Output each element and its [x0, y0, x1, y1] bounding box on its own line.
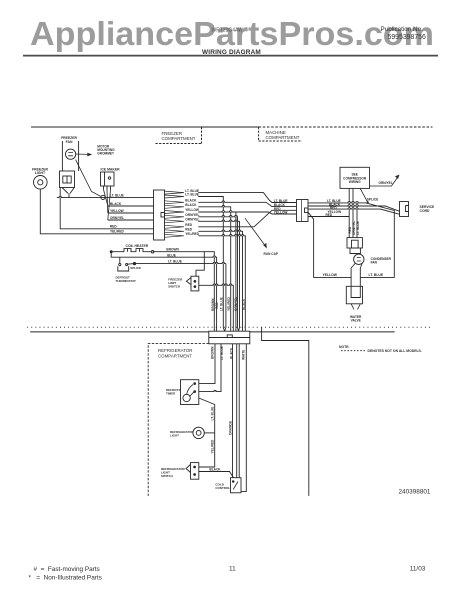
- wire black C3 to cold control: [232, 344, 234, 478]
- bottom solid border: [30, 331, 394, 333]
- svg-text:FAN: FAN: [371, 260, 378, 264]
- svg-text:LT. BLUE: LT. BLUE: [220, 297, 224, 311]
- svg-text:ORN/YEL: ORN/YEL: [185, 218, 199, 222]
- refrigerator right border: [262, 327, 309, 496]
- svg-text:ORN/YEL: ORN/YEL: [185, 213, 199, 217]
- connector C3: [209, 331, 250, 344]
- note dashed sample: [341, 350, 366, 352]
- freezer fan connector box: [60, 171, 75, 188]
- svg-text:BLACK: BLACK: [110, 202, 122, 206]
- run capacitor callout arrow: [245, 218, 267, 248]
- machine bottom wire right: [360, 277, 394, 279]
- refrigerator light switch: [186, 463, 199, 480]
- svg-text:ORN/YEL: ORN/YEL: [234, 297, 238, 311]
- wire red J1 down: [198, 231, 242, 331]
- svg-text:RED: RED: [110, 225, 117, 229]
- ring terminal: [101, 195, 105, 199]
- svg-text:BLACK: BLACK: [242, 298, 246, 310]
- wire yellow J1 to J2 pin4: [198, 212, 296, 214]
- wire lt-blue splice down right side: [366, 203, 394, 278]
- rotated wire labels above C3: [211, 296, 246, 311]
- svg-text:COMPARTMENT: COMPARTMENT: [266, 135, 300, 140]
- svg-text:AppliancePartsPros.com: AppliancePartsPros.com: [30, 16, 434, 53]
- wire orn-yel J1 down a: [198, 217, 238, 331]
- svg-text:5995398756: 5995398756: [388, 34, 426, 41]
- wire red J1 to J2 pin3: [198, 210, 296, 227]
- condenser fan motor: [354, 254, 364, 264]
- wire hop bumps: [59, 196, 358, 391]
- freezer light label: [32, 167, 48, 175]
- defrost timer label: [166, 388, 181, 396]
- defrost timer: [181, 380, 199, 405]
- ground arrow: [369, 175, 399, 186]
- svg-text:LT. BLUE: LT. BLUE: [110, 193, 124, 197]
- wire yel-red freezer light to J1: [40, 189, 153, 234]
- wire lt-blue J1 down: [198, 197, 224, 332]
- wire red J2 to service cord: [308, 209, 400, 214]
- wire red J2 to condenser fan: [308, 216, 349, 218]
- svg-text:BLACK: BLACK: [209, 467, 221, 471]
- cold control: [231, 478, 242, 493]
- service cord label: [420, 205, 436, 213]
- svg-text:COMPARTMENT: COMPARTMENT: [158, 353, 192, 358]
- freezer light lamp: [34, 176, 48, 190]
- svg-text:TIMER: TIMER: [166, 391, 176, 395]
- svg-text:BLUE: BLUE: [167, 253, 176, 257]
- motor mounting grommet callout arrow: [76, 153, 93, 157]
- wire black J2 to service cord: [308, 206, 400, 211]
- svg-text:DENOTES NOT ON ALL MODELS.: DENOTES NOT ON ALL MODELS.: [368, 349, 422, 353]
- defrost thermostat: [118, 262, 136, 271]
- wire yel-red down to switch: [199, 433, 215, 467]
- svg-text:SWITCH: SWITCH: [168, 284, 180, 288]
- svg-text:YEL/RED: YEL/RED: [110, 230, 125, 234]
- refrigerator compartment dashed border: [148, 344, 209, 496]
- svg-text:WIRING: WIRING: [349, 180, 361, 184]
- svg-text:Publication No.: Publication No.: [381, 26, 424, 33]
- J1 fan-out crimps: [165, 191, 185, 237]
- freezer compartment label dashed corner: [156, 127, 202, 144]
- freezer compartment top border: [31, 126, 259, 128]
- svg-text:LT. BLUE: LT. BLUE: [369, 273, 384, 277]
- condenser fan label: [371, 257, 392, 265]
- refrigerator light switch label: [161, 467, 186, 478]
- motor mounting grommet label: [97, 145, 115, 156]
- svg-text:COMPARTMENT: COMPARTMENT: [162, 136, 196, 141]
- wire black switch to cold control: [199, 472, 234, 478]
- freezer limit switch: [186, 276, 198, 291]
- svg-text:ORN/YEL: ORN/YEL: [379, 181, 393, 185]
- wire labels left of J1: [110, 193, 125, 233]
- wire red compressor to fan connector: [348, 188, 350, 237]
- wire lt-blue thermostat line: [120, 257, 226, 264]
- svg-text:ICE MAKER: ICE MAKER: [101, 167, 121, 171]
- wire lt-blue C3 to defrost timer: [199, 344, 221, 392]
- wire limit switch down: [199, 285, 234, 331]
- freezer fan label: [61, 136, 77, 144]
- machine compartment label: [266, 130, 300, 140]
- svg-text:SPLICE: SPLICE: [367, 198, 379, 202]
- svg-text:LT. BLUE: LT. BLUE: [168, 259, 182, 263]
- machine compartment label dashed corner: [259, 127, 302, 141]
- svg-text:YELLOW: YELLOW: [274, 211, 288, 215]
- svg-text:SWITCH: SWITCH: [161, 474, 173, 478]
- heater wire labels: [166, 247, 181, 263]
- wire yellow J2 down left side of machine box: [308, 212, 314, 277]
- svg-text:240398801: 240398801: [399, 489, 431, 496]
- wire labels J2 left: [274, 199, 288, 215]
- see compressor wiring box: [340, 167, 370, 188]
- svg-text:GROMMET: GROMMET: [97, 152, 114, 156]
- wire light to vertical: [204, 432, 214, 434]
- svg-text:THERMOSTAT: THERMOSTAT: [116, 279, 137, 283]
- svg-text:RUN CAP: RUN CAP: [264, 252, 279, 256]
- wire orn-yel ice maker to J1: [108, 219, 154, 221]
- wire lt-blue J2 to splice: [308, 202, 366, 204]
- J1 fan-out labels: [185, 189, 200, 236]
- wire black J1 down: [198, 207, 230, 331]
- svg-text:NOTE:: NOTE:: [339, 345, 350, 349]
- svg-text:RED: RED: [215, 302, 219, 309]
- wire lt-blue down to C3: [225, 264, 226, 332]
- wire orn-yel J1 down b: [198, 221, 239, 331]
- wire yellow ice maker to J1: [108, 212, 154, 214]
- svg-text:COIL HEATER: COIL HEATER: [126, 244, 149, 248]
- ice maker: [101, 172, 115, 186]
- svg-text:LT. BLUE: LT. BLUE: [356, 221, 360, 235]
- svg-text:BROWN: BROWN: [166, 247, 179, 251]
- condenser fan legs: [351, 263, 362, 268]
- svg-text:YELLOW: YELLOW: [185, 208, 199, 212]
- machine compartment dotted bottom border: [27, 326, 433, 328]
- wire lt-blue fan to connector J1: [57, 197, 154, 199]
- wire yellow branch down: [235, 212, 237, 331]
- svg-text:FAN: FAN: [66, 140, 73, 144]
- svg-text:ORANGE: ORANGE: [228, 421, 232, 435]
- wire blue heater return: [111, 252, 216, 332]
- freezer limit switch label: [168, 277, 183, 288]
- wire red C3 to cold control: [238, 344, 240, 478]
- svg-text:SPLICE: SPLICE: [130, 266, 141, 270]
- wire lt-blue timer down: [199, 398, 215, 433]
- water valve: [346, 286, 362, 304]
- wire lt-blue J1 to J2 pin1: [198, 193, 296, 203]
- svg-text:ORN/YEL: ORN/YEL: [110, 216, 124, 220]
- connector J2: [297, 200, 309, 222]
- svg-text:CONTROL: CONTROL: [215, 486, 230, 490]
- wire labels J2 right: [326, 199, 342, 217]
- svg-text:LIGHT: LIGHT: [170, 434, 179, 438]
- svg-text:RED: RED: [185, 228, 192, 232]
- svg-text:YEL/RED: YEL/RED: [210, 439, 214, 454]
- cold control label: [215, 482, 230, 490]
- refrigerator light label: [170, 430, 195, 438]
- wire orange C3 to cold control: [236, 344, 238, 478]
- svg-text:11: 11: [229, 566, 236, 573]
- water valve label: [350, 315, 362, 323]
- connector J1: [154, 190, 165, 240]
- wire orn-yel compressor to fan connector: [352, 188, 354, 237]
- wire brown C3 to defrost timer: [199, 344, 215, 384]
- freezer fan housing: [62, 141, 78, 171]
- svg-text:11/03: 11/03: [410, 566, 426, 573]
- wire white C3 to cold control: [241, 344, 246, 492]
- wire yel-red J1 down: [198, 236, 245, 331]
- wire black ice maker to J1: [108, 205, 154, 207]
- wire brown to limit switch: [196, 252, 204, 277]
- svg-text:* = Non-Illustrated Parts: * = Non-Illustrated Parts: [29, 575, 102, 582]
- rotated labels below C3: [210, 346, 245, 360]
- svg-text:YELLOW: YELLOW: [323, 273, 338, 277]
- header rule: [23, 55, 438, 57]
- svg-text:VALVE: VALVE: [351, 318, 361, 322]
- svg-text:CORD: CORD: [420, 209, 431, 213]
- svg-text:BLACK: BLACK: [185, 203, 197, 207]
- svg-text:WHITE: WHITE: [242, 350, 246, 360]
- svg-text:RED: RED: [185, 223, 192, 227]
- condenser fan connector: [347, 238, 362, 254]
- svg-text:BROWN: BROWN: [210, 346, 214, 359]
- svg-text:LT. BLUE: LT. BLUE: [220, 346, 224, 360]
- splice at compressor: [360, 188, 378, 203]
- svg-text:# = Fast-moving Parts: # = Fast-moving Parts: [34, 566, 100, 573]
- ice maker pins: [104, 186, 111, 190]
- refrigerator compartment label: [158, 348, 192, 358]
- freezer fan motor M1: [66, 149, 76, 159]
- svg-text:YEL/RED: YEL/RED: [227, 296, 231, 311]
- refrigerator light lamp: [193, 427, 204, 438]
- svg-text:BLACK: BLACK: [185, 199, 197, 203]
- freezer compartment label: [162, 131, 196, 141]
- service cord plug: [400, 202, 409, 217]
- wire red fan to J1: [60, 188, 153, 229]
- freezer fan legs: [62, 188, 74, 198]
- ice maker pigtails: [104, 190, 111, 221]
- svg-text:BLACK: BLACK: [230, 347, 234, 359]
- water valve legs: [351, 304, 360, 310]
- coil heater element: [110, 249, 154, 253]
- svg-text:YEL/RED: YEL/RED: [185, 232, 200, 236]
- svg-text:LT. BLUE: LT. BLUE: [185, 193, 199, 197]
- svg-text:YELLOW: YELLOW: [110, 209, 124, 213]
- rotated labels condenser fan wires: [348, 221, 360, 235]
- wire black J1 to J2 pin2: [198, 202, 296, 206]
- defrost thermostat label: [116, 275, 137, 283]
- wire brown heater to C3: [153, 252, 215, 332]
- wire lt-blue to fan connector: [356, 203, 358, 238]
- wire fan to ring terminal: [76, 160, 102, 197]
- water valve drop wires: [351, 268, 360, 286]
- svg-text:WRT21G4AW: WRT21G4AW: [212, 28, 244, 34]
- svg-text:LT. BLUE: LT. BLUE: [210, 407, 214, 421]
- machine compartment dashed top border: [259, 126, 433, 128]
- svg-text:LIGHT: LIGHT: [35, 171, 46, 175]
- machine bottom wire left: [314, 277, 352, 279]
